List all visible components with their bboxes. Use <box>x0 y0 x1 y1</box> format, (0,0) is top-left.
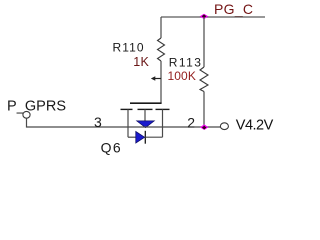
svg-text:1K: 1K <box>133 55 149 69</box>
arrow annotation on R110 stem <box>151 76 161 81</box>
Q6 bulk stem <box>144 109 146 120</box>
wire R113 bottom stem <box>203 92 205 128</box>
Q6 source stem (pin 2 side) <box>162 109 164 137</box>
svg-text:Q6: Q6 <box>101 140 122 156</box>
wire PG_C horizontal <box>161 16 265 18</box>
Q6 body diode <box>136 132 145 144</box>
svg-text:V4.2V: V4.2V <box>236 118 274 134</box>
svg-text:PG_C: PG_C <box>214 1 253 17</box>
Q6 body diode rail right <box>145 136 162 138</box>
svg-text:R110: R110 <box>113 40 145 54</box>
Q6 channel segment left <box>121 108 133 110</box>
junction at pin2 / R113 / V4.2V <box>200 124 208 130</box>
svg-text:P_GPRS: P_GPRS <box>7 98 66 114</box>
wire R110 bottom stem to gate <box>160 61 162 103</box>
svg-text:2: 2 <box>187 114 195 130</box>
svg-text:100K: 100K <box>168 69 196 83</box>
svg-text:R113: R113 <box>169 56 203 70</box>
resistor R110 <box>158 38 165 61</box>
transistor Q6 gate bar <box>130 102 162 104</box>
Q6 body diode cathode bar <box>144 131 146 144</box>
wire R113 top stem <box>203 17 205 67</box>
Q6 drain stem (pin 3 side) <box>127 109 129 137</box>
connector circle V4.2V <box>220 123 228 130</box>
Q6 channel segment right <box>156 108 170 110</box>
Q6 body diode rail left <box>128 136 136 138</box>
wire R110 top stem <box>160 17 162 38</box>
Q6 bulk arrow <box>137 121 154 128</box>
connector circle P_GPRS <box>23 111 30 118</box>
wire P_GPRS stub <box>27 118 129 127</box>
svg-text:3: 3 <box>94 114 102 130</box>
Q6 channel segment middle <box>138 108 153 110</box>
wire source row through device <box>128 126 220 128</box>
resistor R113 <box>200 67 208 92</box>
junction at PG_C / R113 <box>200 14 209 19</box>
